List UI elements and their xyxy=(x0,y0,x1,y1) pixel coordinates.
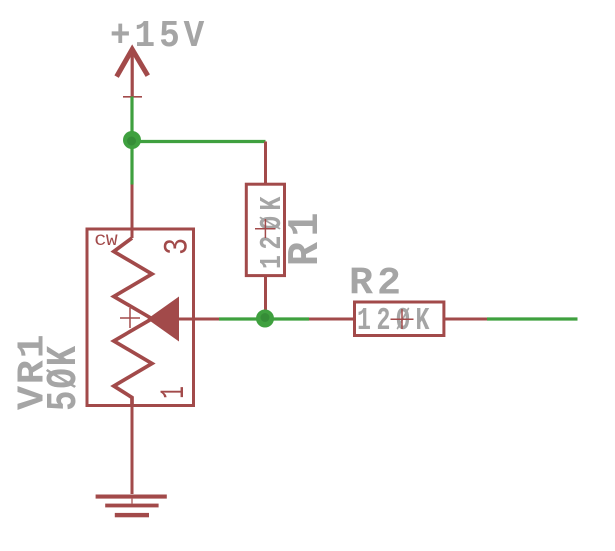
svg-text:12ØK: 12ØK xyxy=(357,304,435,339)
wire R2 to right edge xyxy=(487,317,578,320)
R2 origin cross xyxy=(391,309,414,329)
wire junction to corner xyxy=(132,140,266,143)
ground pin thin line xyxy=(131,499,133,504)
VR1 wiper arrow xyxy=(147,297,179,342)
svg-text:5ØK: 5ØK xyxy=(40,344,89,411)
svg-text:3: 3 xyxy=(159,238,197,255)
VR1 origin cross xyxy=(120,308,140,328)
resistor R1 pin top xyxy=(264,142,267,185)
svg-text:R2: R2 xyxy=(349,261,405,305)
resistor R2 pin right xyxy=(444,318,487,321)
VR1 resistive element zigzag xyxy=(114,238,152,406)
potentiometer VR1 body xyxy=(87,229,194,406)
resistor R2 pin left xyxy=(309,318,355,321)
junction node at wiper/R1/R2 xyxy=(256,310,274,328)
wire junction down to VR1 xyxy=(130,142,133,185)
svg-text:CW: CW xyxy=(95,232,118,250)
resistor R1 pin bottom xyxy=(264,276,267,319)
ground symbol xyxy=(96,495,167,518)
resistor R2 body xyxy=(355,302,444,336)
svg-text:+15V: +15V xyxy=(110,15,208,58)
VR1 wiper pin lead xyxy=(179,318,219,321)
wire wiper to junction 2 xyxy=(219,317,309,320)
svg-text:1: 1 xyxy=(155,386,193,399)
VR1 pin 3 lead xyxy=(131,185,134,239)
svg-text:R1: R1 xyxy=(281,207,331,266)
wire +15V to junction xyxy=(130,97,133,142)
junction node at +15V xyxy=(123,131,141,149)
supply symbol +15V arrow xyxy=(117,49,148,96)
VR1 pin 1 lead to ground xyxy=(131,406,134,494)
R1 origin cross xyxy=(255,219,276,238)
supply pin tick xyxy=(123,96,142,98)
resistor R1 body xyxy=(246,184,284,275)
